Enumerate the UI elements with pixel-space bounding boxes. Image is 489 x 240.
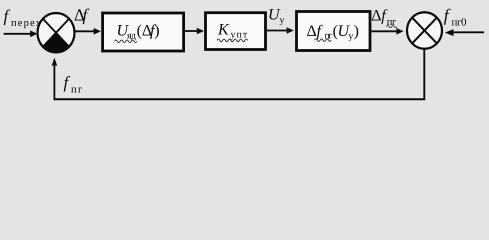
svg-text:яд: яд xyxy=(127,30,136,41)
svg-text:): ) xyxy=(154,23,159,40)
squiggle under K_upt xyxy=(217,39,248,42)
svg-text:К: К xyxy=(217,22,230,39)
summer S1 (comparison element, filled bottom sector) xyxy=(38,13,75,53)
squiggle under U_yad xyxy=(115,40,137,43)
wire S1 to block U1 xyxy=(74,28,101,35)
svg-text:): ) xyxy=(354,23,359,40)
block U1: U_yad(Df) xyxy=(103,13,184,51)
node f_pg0 input label xyxy=(444,5,467,29)
squiggle under pg subscript xyxy=(387,26,397,28)
node f_perekh input label xyxy=(4,7,42,30)
wire feedback: S2 down xyxy=(423,48,425,99)
summer S2 xyxy=(407,12,442,49)
wire U1 to block U2 xyxy=(184,28,204,35)
block U2: K_upt xyxy=(206,13,266,50)
wire feedback: up into S1 with arrow xyxy=(52,58,58,100)
wire U3 to summer S2 xyxy=(371,28,404,35)
block U3: Df_pg(U_y) xyxy=(297,12,371,51)
svg-text:Δ: Δ xyxy=(371,7,381,24)
wire feedback: bottom horizontal xyxy=(54,98,426,100)
wire input arrow from right into S2 xyxy=(445,29,484,36)
squiggle under f_pg xyxy=(315,39,332,42)
svg-text:у: у xyxy=(280,15,285,26)
node Delta-f_pg label xyxy=(371,7,397,28)
svg-text:Δ: Δ xyxy=(307,23,317,40)
wire input arrow into summer S1 xyxy=(4,30,38,37)
svg-text:упт: упт xyxy=(231,30,248,41)
node Delta-f label xyxy=(74,6,90,25)
node U_y label xyxy=(268,7,285,27)
svg-text:пг0: пг0 xyxy=(452,17,468,29)
wire U2 to block U3 xyxy=(266,27,294,34)
node f_pg feedback label xyxy=(64,73,83,96)
